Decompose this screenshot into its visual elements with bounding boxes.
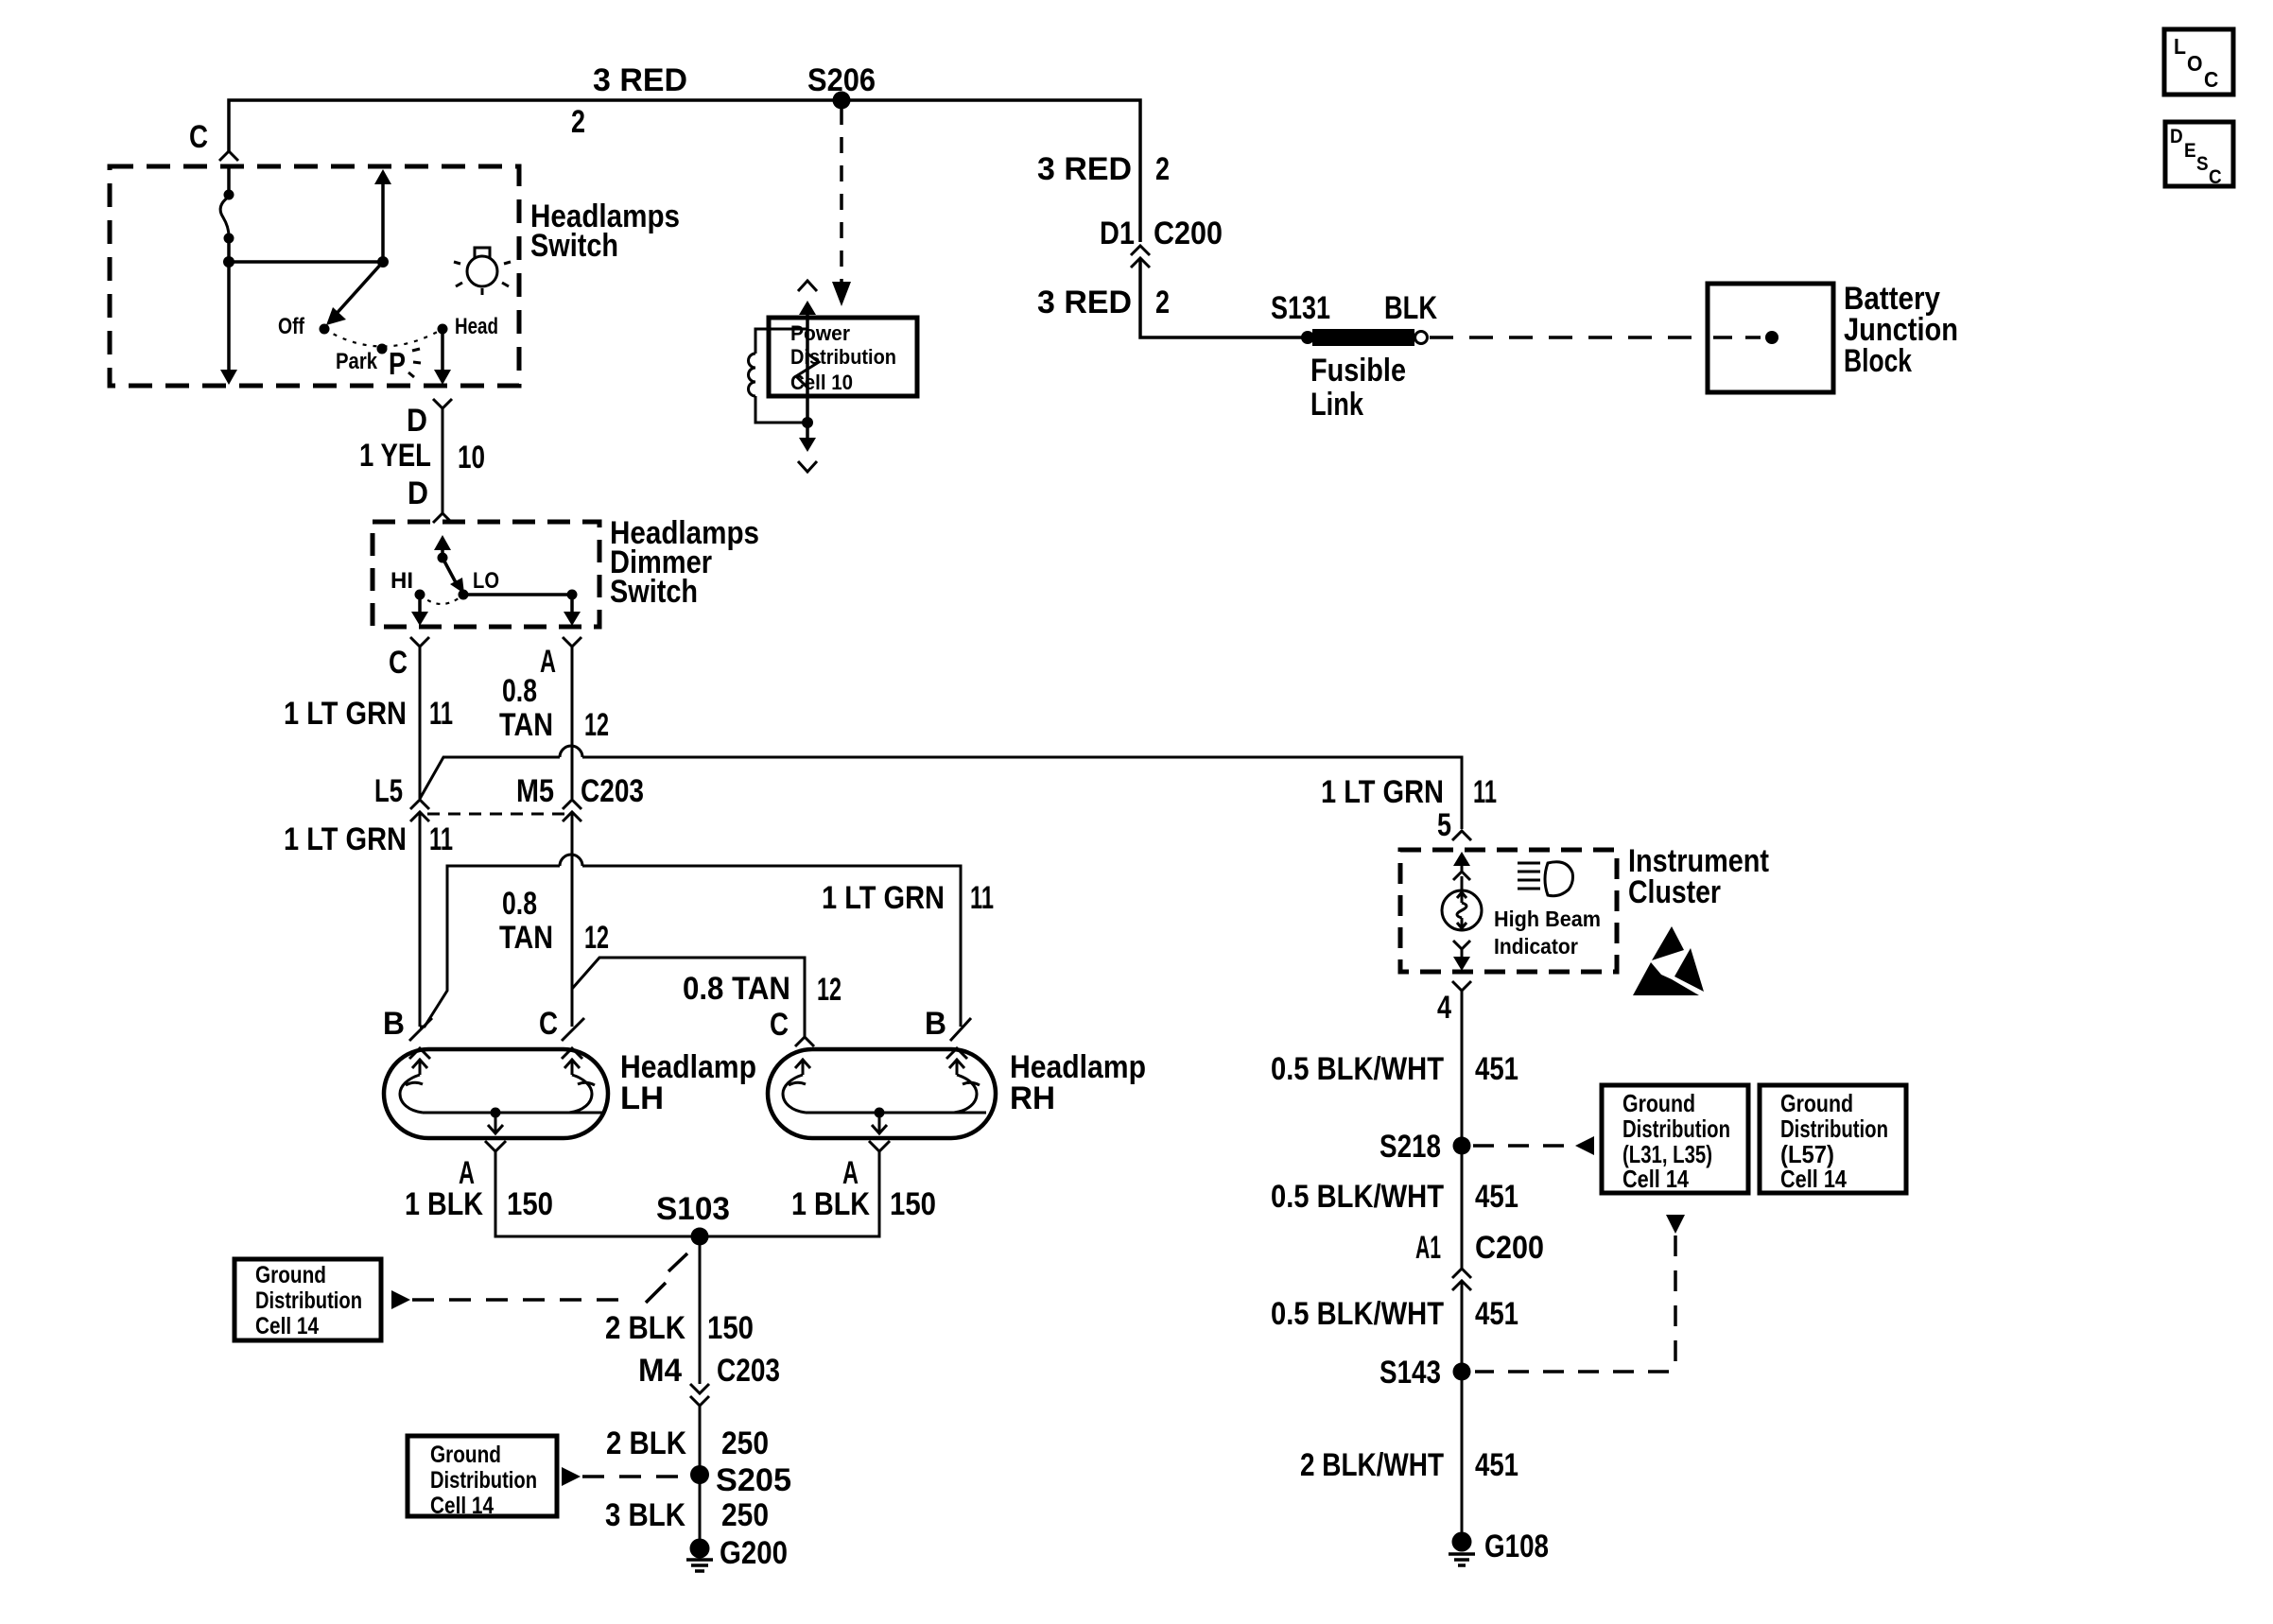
svg-text:11: 11 (970, 880, 994, 916)
svg-text:Switch: Switch (530, 228, 618, 264)
wire 0.5 BLK/WHT 451 (C200 to S143) (1271, 1281, 1518, 1363)
switch wiper arrow to Off (326, 262, 383, 325)
splice S143 (1379, 1355, 1471, 1391)
svg-text:S: S (2196, 153, 2209, 175)
instrument cluster box (1400, 843, 1769, 972)
terminal A of headlamp LH (459, 1141, 506, 1191)
wire 0.8 TAN 12 (M5 to headlamp C) (499, 812, 609, 1027)
svg-text:3 RED: 3 RED (1037, 151, 1132, 187)
wire 3 RED top bus (229, 100, 1140, 242)
headlamp RH high beam filament (949, 1060, 980, 1113)
svg-text:Distribution: Distribution (1780, 1114, 1888, 1143)
high beam icon (1518, 862, 1573, 896)
svg-text:B: B (925, 1006, 946, 1042)
connector pin C (dimmer output) (389, 637, 429, 681)
wire internal Head contact to pin D (434, 334, 451, 385)
wire 1 YEL circuit 10 (359, 408, 485, 513)
svg-text:0.5 BLK/WHT: 0.5 BLK/WHT (1271, 1296, 1444, 1332)
svg-text:TAN: TAN (499, 920, 553, 956)
connector C200 pin D1 (1100, 216, 1223, 268)
svg-text:M5: M5 (516, 773, 554, 809)
connector pin D (switch side) (407, 399, 452, 439)
svg-text:L5: L5 (374, 773, 403, 809)
headlamps dimmer switch box (373, 515, 759, 627)
dashed reference arrow to S103 (391, 1253, 687, 1309)
svg-text:C203: C203 (581, 773, 644, 809)
svg-text:250: 250 (721, 1425, 769, 1461)
svg-text:3 BLK: 3 BLK (605, 1497, 685, 1533)
svg-text:4: 4 (1437, 990, 1451, 1026)
svg-text:Distribution: Distribution (790, 345, 896, 369)
wire 2 BLK 250 (M4 to S205) (606, 1406, 769, 1475)
terminal B of headlamp LH (383, 1006, 432, 1059)
svg-text:D: D (2170, 126, 2183, 147)
contact LO (459, 568, 500, 600)
terminal C of headlamp LH (539, 1006, 584, 1059)
connector C203 pin M5 (516, 773, 644, 821)
splice S131 (1271, 290, 1330, 344)
svg-text:12: 12 (584, 707, 609, 743)
svg-text:1 LT GRN: 1 LT GRN (284, 821, 407, 857)
contact Park (336, 344, 388, 375)
svg-text:Ground: Ground (430, 1442, 501, 1468)
headlamp LH high beam filament (400, 1060, 427, 1113)
svg-text:LH: LH (620, 1080, 664, 1116)
svg-text:2 BLK: 2 BLK (606, 1425, 686, 1461)
label 3 RED 2 (below C200) (1037, 285, 1170, 320)
svg-text:C: C (2204, 67, 2218, 92)
svg-text:C: C (770, 1007, 789, 1043)
svg-text:5: 5 (1437, 807, 1451, 843)
svg-text:S218: S218 (1379, 1129, 1441, 1165)
terminal B of headlamp RH (925, 1006, 971, 1059)
wire 3 BLK 250 (S205 to G200) (605, 1475, 769, 1541)
connector pin 4 (cluster) (1437, 981, 1471, 1026)
ground distribution reference box (at S103) (234, 1259, 381, 1340)
svg-text:Ground: Ground (1622, 1089, 1695, 1117)
svg-text:Link: Link (1310, 387, 1363, 423)
svg-text:S131: S131 (1271, 290, 1330, 326)
svg-text:2: 2 (571, 104, 585, 140)
svg-text:451: 451 (1475, 1179, 1518, 1215)
svg-text:250: 250 (721, 1497, 769, 1533)
svg-text:L: L (2174, 34, 2186, 59)
connector pin 5 (cluster) (1452, 831, 1471, 840)
ground distribution reference box (L57) (1760, 1085, 1906, 1193)
svg-text:Indicator: Indicator (1494, 934, 1578, 959)
svg-text:451: 451 (1475, 1296, 1518, 1332)
wire 2 BLK 150 (S103 to M4) (605, 1236, 754, 1384)
wire dashed BLK to battery junction block (1430, 336, 1708, 339)
svg-text:1 LT GRN: 1 LT GRN (284, 696, 407, 732)
svg-text:0.8 TAN: 0.8 TAN (683, 971, 790, 1007)
headlamps switch box (110, 166, 680, 386)
headlamp RH common return (806, 1108, 986, 1134)
wire low beam branch to RH headlamp C (572, 958, 842, 1037)
svg-text:Cell 14: Cell 14 (255, 1313, 319, 1339)
high beam indicator lamp (1442, 852, 1601, 971)
dimmer wiper arrow to LO (442, 558, 464, 594)
svg-text:150: 150 (707, 1310, 754, 1346)
wire internal to park output (220, 262, 237, 385)
headlamp LH common return (423, 1108, 603, 1134)
svg-text:Ground: Ground (1780, 1089, 1853, 1117)
wire 3 RED to S131 (1140, 258, 1303, 337)
svg-text:C203: C203 (717, 1353, 780, 1389)
svg-text:150: 150 (890, 1186, 936, 1222)
svg-text:C: C (189, 119, 208, 155)
battery junction block (1708, 281, 1958, 392)
wire 2 BLK/WHT 451 (S143 to G108) (1300, 1372, 1518, 1533)
svg-text:Distribution: Distribution (430, 1467, 537, 1494)
splice S206 (807, 62, 876, 110)
wire internal HI to C output (411, 599, 428, 626)
connector C203 dashed body (427, 813, 564, 816)
terminal A of headlamp RH (842, 1141, 890, 1191)
svg-text:Fusible: Fusible (1310, 353, 1406, 389)
svg-text:E: E (2184, 140, 2196, 162)
svg-text:1 LT GRN: 1 LT GRN (1321, 774, 1444, 810)
headlamps switch internal feed wire (220, 166, 234, 268)
svg-text:C200: C200 (1475, 1230, 1544, 1266)
svg-text:12: 12 (584, 920, 609, 956)
svg-text:1 LT GRN: 1 LT GRN (822, 880, 945, 916)
parking lamp P symbol (389, 346, 421, 381)
svg-text:0.5 BLK/WHT: 0.5 BLK/WHT (1271, 1051, 1444, 1087)
svg-text:C: C (389, 645, 408, 681)
svg-text:Off: Off (278, 314, 305, 339)
svg-text:3 RED: 3 RED (1037, 285, 1132, 320)
svg-text:1 YEL: 1 YEL (359, 438, 431, 474)
DESC legend box (2165, 122, 2233, 188)
svg-text:C200: C200 (1154, 216, 1223, 251)
svg-text:BLK: BLK (1384, 290, 1437, 326)
wire internal LO to A output (463, 590, 581, 627)
svg-text:G108: G108 (1484, 1529, 1549, 1564)
svg-text:A1: A1 (1415, 1230, 1441, 1266)
svg-text:11: 11 (1473, 774, 1497, 810)
connector pin A (dimmer output) (540, 637, 581, 680)
wire 1 BLK 150 (RH A to S103) (708, 1151, 936, 1236)
svg-text:C: C (539, 1006, 558, 1042)
fusible link (1310, 290, 1437, 423)
dotted detent arc Off-Park-Head (324, 329, 442, 347)
dashed reference from S143 to ground distribution box (1475, 1215, 1685, 1372)
wire high beam branch to RH headlamp B (420, 855, 994, 1027)
contact HI (390, 568, 425, 600)
connector C200 pin A1 (1415, 1230, 1544, 1290)
terminal C of headlamp RH (770, 1007, 814, 1046)
splice S218 (1379, 1129, 1471, 1165)
svg-text:S143: S143 (1379, 1355, 1441, 1391)
svg-text:Park: Park (336, 349, 378, 374)
svg-text:S206: S206 (807, 62, 876, 98)
wire 0.5 BLK/WHT 451 (cluster to S218) (1271, 991, 1518, 1269)
contact Head (438, 314, 499, 339)
svg-text:High Beam: High Beam (1494, 907, 1601, 931)
dimmer internal input wire and pivot (434, 535, 451, 563)
svg-text:Cell 14: Cell 14 (430, 1493, 494, 1519)
svg-text:Cell 14: Cell 14 (1622, 1165, 1689, 1193)
svg-text:A: A (540, 644, 556, 680)
wire 1 LT GRN 11 (dimmer C to L5) (284, 647, 453, 799)
headlamp RH body (768, 1049, 1146, 1138)
wire branch to high beam indicator (long run) (420, 746, 1462, 829)
svg-text:D: D (407, 403, 427, 439)
svg-text:Power: Power (790, 321, 850, 345)
svg-text:RH: RH (1010, 1080, 1055, 1116)
headlamp LH body (384, 1049, 756, 1138)
svg-text:Switch: Switch (610, 574, 698, 610)
svg-text:11: 11 (429, 696, 453, 732)
svg-text:D1: D1 (1100, 216, 1135, 251)
ESD sensitive device symbol (1633, 926, 1704, 995)
headlamp RH low beam filament (783, 1060, 810, 1113)
splice S103 (656, 1191, 730, 1246)
wire 1 LT GRN 11 into instrument cluster pin 5 (1321, 774, 1497, 843)
svg-text:LO: LO (473, 568, 499, 594)
svg-text:451: 451 (1475, 1447, 1518, 1483)
svg-text:G200: G200 (720, 1535, 788, 1571)
svg-text:1 BLK: 1 BLK (405, 1186, 483, 1222)
wire 0.5 BLK/WHT 451 (S218 to C200) (1271, 1146, 1518, 1265)
splice S205 (690, 1462, 791, 1498)
svg-text:2: 2 (1155, 285, 1170, 320)
dashed reference from S218 (1473, 1136, 1594, 1155)
svg-text:Block: Block (1844, 343, 1912, 379)
ground G200 (686, 1535, 788, 1571)
svg-text:B: B (383, 1006, 405, 1042)
headlamp LH low beam filament (564, 1060, 595, 1113)
svg-text:Distribution: Distribution (1622, 1114, 1730, 1143)
svg-text:Cluster: Cluster (1628, 874, 1721, 910)
svg-text:D: D (408, 475, 428, 511)
svg-text:2: 2 (1155, 151, 1170, 187)
svg-text:1 BLK: 1 BLK (791, 1186, 870, 1222)
svg-text:P: P (389, 346, 406, 381)
connector C203 pin L5 (374, 773, 429, 821)
label 3 RED 2 (circuit 2, top bus) (571, 62, 687, 140)
connector C203 pin M4 (638, 1353, 780, 1406)
LOC legend box (2164, 29, 2233, 95)
svg-text:M4: M4 (638, 1353, 682, 1389)
svg-text:S205: S205 (716, 1462, 791, 1498)
svg-text:12: 12 (817, 972, 842, 1008)
svg-text:Distribution: Distribution (255, 1287, 362, 1314)
wire 0.8 TAN 12 (dimmer A to M5) (499, 647, 609, 799)
wire internal junction to feed arrow (229, 169, 391, 268)
svg-text:11: 11 (429, 821, 453, 857)
ground distribution reference box (at S205) (408, 1436, 557, 1519)
svg-text:Head: Head (455, 314, 498, 339)
label 3 RED 2 (above C200) (1037, 151, 1170, 187)
svg-text:2 BLK/WHT: 2 BLK/WHT (1300, 1447, 1444, 1483)
svg-text:O: O (2187, 51, 2203, 76)
svg-text:2 BLK: 2 BLK (605, 1310, 685, 1346)
dotted detent arc HI-LO (420, 595, 463, 604)
svg-text:Ground: Ground (255, 1262, 326, 1288)
dashed reference arrow to S205 (562, 1467, 689, 1486)
svg-text:TAN: TAN (499, 707, 553, 743)
ground distribution reference box (L31, L35) (1602, 1085, 1748, 1193)
svg-text:150: 150 (507, 1186, 553, 1222)
ground G108 (1449, 1529, 1549, 1565)
svg-text:HI: HI (390, 568, 413, 594)
svg-text:451: 451 (1475, 1051, 1518, 1087)
wire 1 BLK 150 (LH A to S103) (405, 1151, 691, 1236)
wire dashed drop from S206 to Power Distribution (832, 109, 851, 306)
connector pin C of headlamps switch (189, 119, 238, 161)
svg-text:0.8: 0.8 (502, 673, 537, 709)
svg-text:C: C (2209, 166, 2222, 188)
svg-text:Cell 10: Cell 10 (790, 371, 853, 394)
wire 1 LT GRN 11 (L5 to headlamp B) (284, 812, 453, 1027)
lamp symbol in headlamps switch (454, 248, 511, 295)
svg-text:S103: S103 (656, 1191, 730, 1227)
svg-text:Cell 14: Cell 14 (1780, 1165, 1847, 1193)
svg-text:0.5 BLK/WHT: 0.5 BLK/WHT (1271, 1179, 1444, 1215)
connector pin D (dimmer side) (408, 475, 452, 523)
svg-text:10: 10 (458, 440, 485, 475)
contact Off (278, 314, 330, 339)
svg-text:0.8: 0.8 (502, 886, 537, 922)
svg-text:3 RED: 3 RED (593, 62, 687, 98)
power distribution cell 10 reference (749, 281, 917, 472)
